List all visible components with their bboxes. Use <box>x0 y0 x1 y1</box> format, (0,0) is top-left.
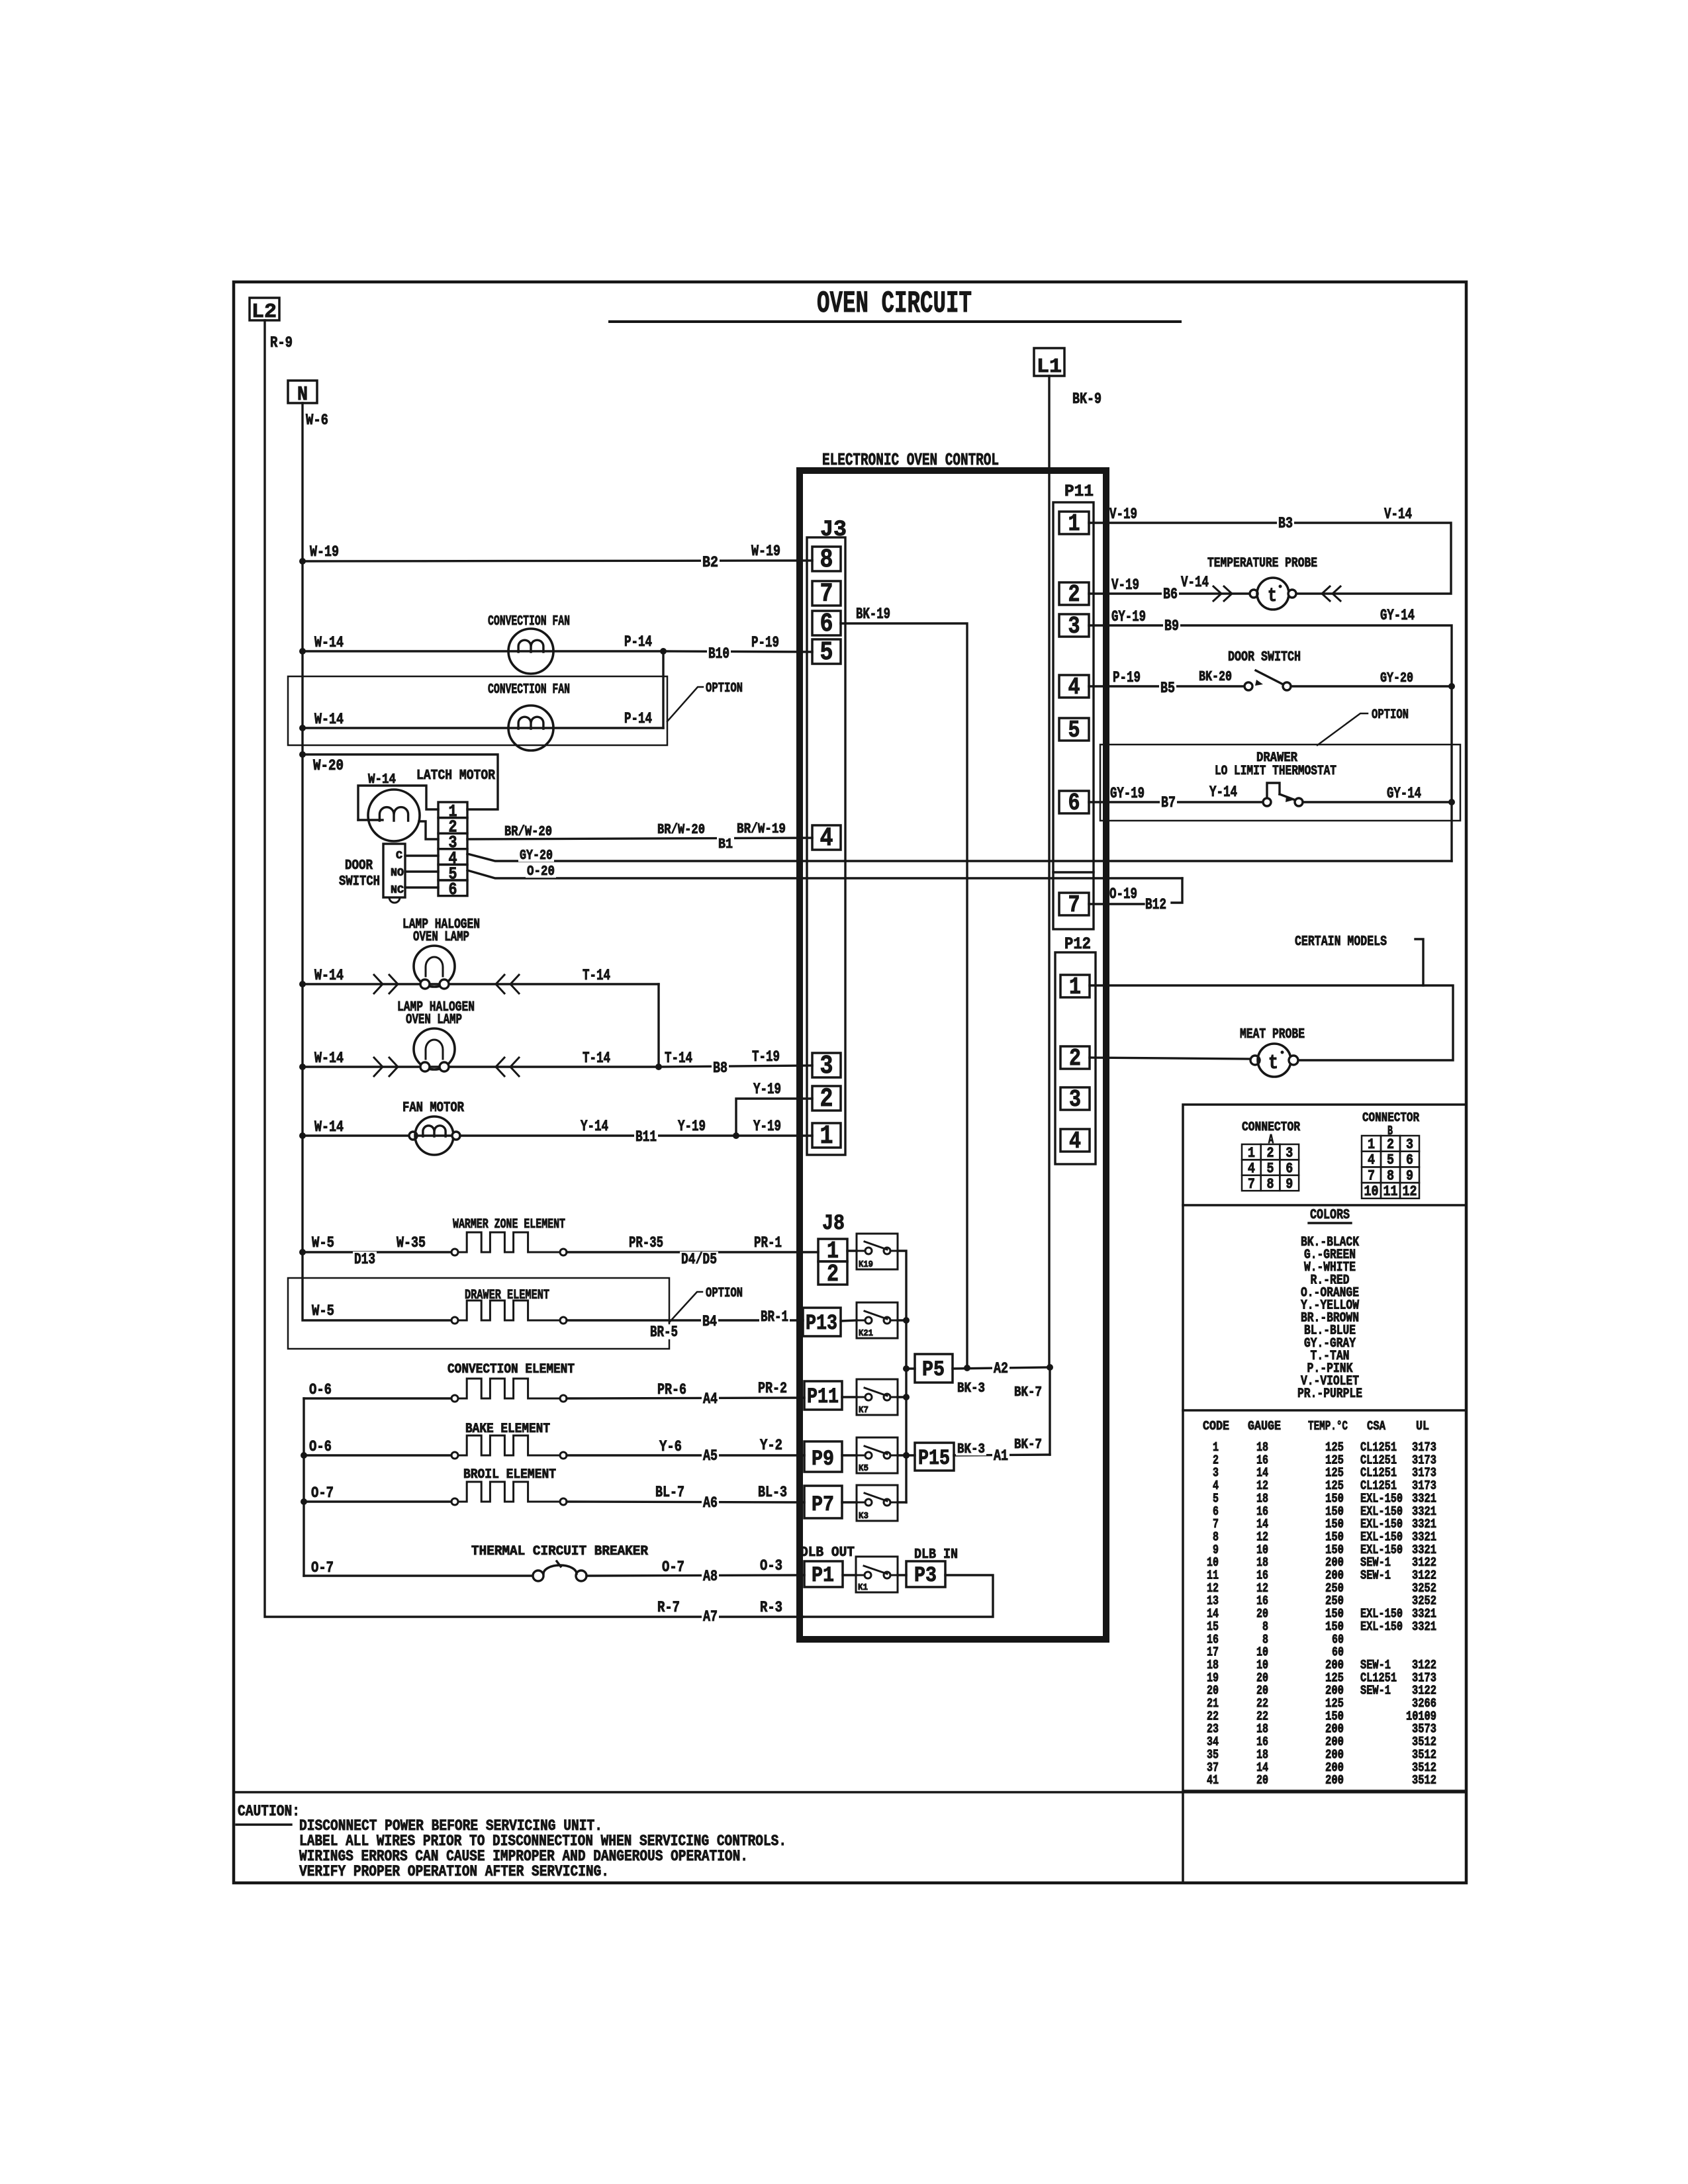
svg-text:W-19: W-19 <box>310 543 339 561</box>
svg-text:O-3: O-3 <box>760 1557 782 1574</box>
svg-text:2: 2 <box>820 1085 833 1115</box>
plug P15 <box>906 1454 915 1456</box>
svg-text:B11: B11 <box>635 1128 657 1146</box>
svg-text:GY-19: GY-19 <box>1111 608 1146 625</box>
wire O-6 to bake element <box>304 1454 451 1456</box>
svg-text:3: 3 <box>1069 1086 1081 1113</box>
node W-14 fan2 junction <box>299 725 306 731</box>
svg-text:O-20: O-20 <box>527 864 555 880</box>
svg-text:V-19: V-19 <box>1111 576 1139 594</box>
svg-text:P-19: P-19 <box>751 634 779 651</box>
svg-text:O-7: O-7 <box>311 1559 334 1576</box>
wire W-14 option fan <box>303 727 663 729</box>
svg-text:7: 7 <box>1248 1176 1255 1193</box>
svg-text:DOOR: DOOR <box>345 858 373 874</box>
connector J3 pin 2 <box>812 1086 841 1111</box>
connector P12 pin 1 <box>1060 975 1090 997</box>
svg-text:O-19: O-19 <box>1109 886 1137 903</box>
svg-text:W-6: W-6 <box>306 412 328 429</box>
svg-text:P15: P15 <box>918 1446 950 1471</box>
svg-text:C: C <box>396 850 402 862</box>
svg-text:T-14: T-14 <box>583 1050 610 1067</box>
wire T-14 lamp1 to junction <box>510 975 519 993</box>
svg-text:4: 4 <box>1069 1128 1081 1155</box>
svg-text:NC: NC <box>391 884 404 897</box>
svg-text:Y-19: Y-19 <box>678 1118 706 1135</box>
svg-text:O-7: O-7 <box>311 1484 334 1502</box>
wire W-14 to convection fan <box>303 650 663 652</box>
svg-text:4: 4 <box>1068 674 1080 701</box>
svg-text:7: 7 <box>820 580 833 610</box>
svg-text:BR-1: BR-1 <box>761 1308 788 1326</box>
svg-text:OVEN LAMP: OVEN LAMP <box>413 930 469 945</box>
wire PR-35 D4/D5 PR-1 to J8-1 <box>567 1251 818 1253</box>
svg-text:W-14: W-14 <box>314 1118 344 1136</box>
svg-text:W-5: W-5 <box>312 1302 334 1320</box>
node BK-19 P5 junction <box>964 1365 970 1371</box>
svg-text:BR/W-20: BR/W-20 <box>657 823 705 838</box>
svg-text:BK-9: BK-9 <box>1072 390 1102 408</box>
wire P3 to R-3 return <box>803 1575 993 1617</box>
connector J3 pin 6 <box>812 611 841 635</box>
svg-text:P7: P7 <box>812 1492 834 1517</box>
svg-text:BK-3: BK-3 <box>957 1381 985 1396</box>
svg-text:GY-14: GY-14 <box>1387 785 1421 802</box>
svg-text:A1: A1 <box>994 1447 1008 1465</box>
wire BR-5 B4 BR-1 to P13 <box>567 1319 803 1321</box>
wire O-7 to thermal breaker <box>304 1574 534 1576</box>
info table box <box>1183 1105 1466 1791</box>
svg-text:CERTAIN MODELS: CERTAIN MODELS <box>1295 934 1387 950</box>
svg-text:J8: J8 <box>822 1211 845 1236</box>
svg-text:SWITCH: SWITCH <box>339 874 380 889</box>
node O-6 junction <box>301 1452 307 1459</box>
svg-text:EXL-150: EXL-150 <box>1360 1619 1403 1634</box>
plug P7 <box>804 1486 842 1518</box>
svg-text:6: 6 <box>820 610 833 639</box>
connector P11 pin 7 <box>1059 893 1089 915</box>
wire GY-20 latch pin4 crossing <box>467 854 1452 861</box>
svg-text:1: 1 <box>1068 510 1080 537</box>
wire P-14 fan2 up to fan1 wire <box>662 651 664 728</box>
svg-text:B10: B10 <box>708 645 729 662</box>
svg-text:P1: P1 <box>812 1563 834 1588</box>
wire N rail <box>303 403 453 1320</box>
connector P11 pin 5 <box>1059 718 1089 741</box>
svg-text:V-19: V-19 <box>1109 506 1137 523</box>
option leader line <box>667 687 703 721</box>
wire P12-1 to meat probe right <box>1090 985 1453 1060</box>
svg-text:5: 5 <box>1068 717 1080 744</box>
svg-text:T-14: T-14 <box>665 1050 692 1067</box>
svg-text:GY-20: GY-20 <box>1380 671 1413 686</box>
connector J3 pin 4 <box>812 825 841 850</box>
svg-text:6: 6 <box>449 880 457 899</box>
svg-text:BROIL ELEMENT: BROIL ELEMENT <box>463 1467 556 1482</box>
svg-text:ELECTRONIC OVEN CONTROL: ELECTRONIC OVEN CONTROL <box>822 450 999 470</box>
svg-text:10: 10 <box>1364 1183 1379 1200</box>
wire Y-19 up to J3-2 <box>736 1099 812 1136</box>
svg-text:Y-14: Y-14 <box>1209 784 1237 801</box>
svg-text:BL-3: BL-3 <box>758 1484 787 1501</box>
svg-text:D4/D5: D4/D5 <box>681 1251 717 1268</box>
wire K3 to bus <box>898 1501 906 1503</box>
svg-text:W-5: W-5 <box>312 1234 334 1251</box>
svg-text:B8: B8 <box>713 1060 727 1077</box>
option box drawer element <box>288 1278 669 1349</box>
svg-text:GY-19: GY-19 <box>1110 785 1145 802</box>
connector J8 pin 1 <box>818 1239 847 1261</box>
svg-text:BR-5: BR-5 <box>650 1324 678 1341</box>
svg-text:B4: B4 <box>702 1313 717 1330</box>
svg-text:W-20: W-20 <box>313 757 344 774</box>
wire K21 to bus <box>898 1319 906 1321</box>
svg-text:P11: P11 <box>807 1385 839 1409</box>
svg-text:PR-6: PR-6 <box>657 1381 686 1398</box>
wire K19 to bus <box>898 1251 906 1502</box>
svg-text:SEW-1: SEW-1 <box>1360 1684 1391 1698</box>
svg-text:41: 41 <box>1207 1773 1219 1788</box>
plug P9 <box>804 1441 842 1472</box>
svg-text:OPTION: OPTION <box>706 1286 743 1301</box>
plug P11 <box>804 1381 842 1410</box>
node W-14 lamp2 junction <box>299 1064 306 1070</box>
wire P12-2 to meat probe left <box>1090 1058 1252 1059</box>
plug P5 <box>906 1367 915 1369</box>
svg-text:12: 12 <box>1403 1183 1417 1200</box>
svg-text:J3: J3 <box>820 518 847 543</box>
node L2 <box>250 298 279 320</box>
svg-text:2: 2 <box>1069 1045 1081 1072</box>
wire L1 BK-9 rail <box>1048 376 1050 1367</box>
connector J3 pin 3 <box>812 1053 841 1077</box>
svg-text:11: 11 <box>1383 1183 1398 1200</box>
latch connector block pins 1-6 <box>438 802 467 818</box>
svg-text:O-6: O-6 <box>309 1381 332 1398</box>
svg-text:CONVECTION ELEMENT: CONVECTION ELEMENT <box>447 1362 575 1377</box>
svg-text:BR/W-20: BR/W-20 <box>504 825 552 840</box>
svg-text:R-3: R-3 <box>760 1599 782 1616</box>
svg-text:BK-7: BK-7 <box>1014 1437 1042 1453</box>
svg-text:O-7: O-7 <box>662 1559 684 1576</box>
svg-text:GY-14: GY-14 <box>1380 607 1415 624</box>
svg-text:t: t <box>1268 1052 1278 1075</box>
wire O-7 A8 O-3 to P1 <box>586 1575 804 1576</box>
svg-text:DLB OUT: DLB OUT <box>800 1545 855 1561</box>
wire Y-14 B11 Y-19 to J3-1 <box>460 1134 812 1136</box>
wire W-14 latch loop to pin1 left <box>358 786 438 820</box>
svg-text:BK-3: BK-3 <box>957 1442 985 1457</box>
svg-text:BK-20: BK-20 <box>1199 670 1232 685</box>
node GY-20 junction <box>1448 683 1455 690</box>
svg-text:T-19: T-19 <box>752 1048 780 1066</box>
svg-text:A7: A7 <box>703 1608 718 1625</box>
svg-text:7: 7 <box>1368 1167 1375 1184</box>
wire C to latch pin4 <box>405 854 438 856</box>
connector P11 pin 6 <box>1059 791 1089 813</box>
wire W-14 to fan motor <box>303 1134 456 1136</box>
border frame <box>234 282 1466 1883</box>
wire B12 hook to O-20 <box>1172 878 1182 903</box>
wire A1 BK-3 BK-7 <box>954 1455 1050 1455</box>
svg-text:W-14: W-14 <box>314 711 344 728</box>
wire BL-7 A6 BL-3 to P7 <box>567 1502 804 1502</box>
svg-text:1: 1 <box>1069 974 1081 1001</box>
wire O rail <box>303 1398 305 1576</box>
relay contact K1 <box>843 1574 856 1576</box>
connector P11 pin 4 <box>1059 675 1089 698</box>
wire O-20 latch pin5 crossing <box>467 870 1182 878</box>
svg-text:P11: P11 <box>1064 482 1094 501</box>
svg-text:W-35: W-35 <box>397 1234 426 1251</box>
node N <box>288 381 317 403</box>
node bus K7 <box>903 1394 910 1400</box>
svg-text:GAUGE: GAUGE <box>1248 1419 1281 1433</box>
svg-text:B2: B2 <box>702 554 718 571</box>
svg-text:D13: D13 <box>354 1251 375 1268</box>
svg-text:20: 20 <box>1256 1773 1268 1788</box>
caution box <box>234 1791 1466 1794</box>
svg-text:7: 7 <box>1068 891 1080 919</box>
node bus P15 <box>903 1452 910 1459</box>
svg-text:P12: P12 <box>1064 934 1091 954</box>
svg-text:8: 8 <box>820 545 833 575</box>
wire L2 rail <box>265 320 803 1617</box>
svg-text:PR-35: PR-35 <box>629 1234 663 1251</box>
svg-text:R-7: R-7 <box>657 1599 680 1616</box>
svg-text:PR-2: PR-2 <box>758 1380 787 1397</box>
wire GY-20 door switch to rail <box>1291 685 1452 687</box>
svg-text:NO: NO <box>391 867 404 880</box>
wire P-19 B5 BK-20 from P11-4 <box>1089 685 1245 687</box>
node W-14 fan motor junction <box>299 1132 306 1139</box>
connector P11 pin 1 <box>1059 512 1089 534</box>
svg-text:TEMP.°C: TEMP.°C <box>1308 1419 1348 1433</box>
connector P11 pin 2 <box>1059 582 1089 605</box>
connector J3 pin 5 <box>812 639 841 664</box>
wire W-14 to oven lamp 1 <box>303 983 659 985</box>
svg-text:R-9: R-9 <box>270 334 293 351</box>
wire K7 to bus <box>898 1396 906 1398</box>
svg-text:FAN MOTOR: FAN MOTOR <box>402 1101 464 1116</box>
connector P12 pin 3 <box>1060 1087 1090 1110</box>
svg-text:A4: A4 <box>703 1390 718 1408</box>
option box drawer lo limit thermostat <box>1100 745 1460 821</box>
node Y-19 junction <box>733 1132 739 1139</box>
svg-text:T-14: T-14 <box>583 967 610 984</box>
svg-text:W-14: W-14 <box>314 1050 344 1067</box>
door switch S1 C/NO/NC box <box>383 844 405 897</box>
svg-text:9: 9 <box>1406 1167 1413 1184</box>
svg-text:PR-1: PR-1 <box>754 1234 782 1251</box>
wire BK-19 J3-6 to P5 <box>841 623 967 1368</box>
svg-text:K3: K3 <box>859 1511 868 1522</box>
node P-14 junction <box>660 648 667 655</box>
svg-text:TEMPERATURE PROBE: TEMPERATURE PROBE <box>1207 556 1317 571</box>
svg-text:P-14: P-14 <box>624 710 652 727</box>
wire lamp1 down to lamp2 wire <box>657 984 659 1067</box>
connector J3 pin 7 <box>812 581 841 606</box>
wire W-19 B2 to J3-8 <box>303 561 812 561</box>
node W-5 junction <box>299 1249 306 1255</box>
svg-text:200: 200 <box>1325 1773 1344 1788</box>
node T-14 junction <box>655 1064 662 1070</box>
wire V-19 B6 V-14 from P11-2 <box>1089 592 1252 594</box>
svg-text:MEAT PROBE: MEAT PROBE <box>1240 1027 1305 1042</box>
node bus P5 <box>903 1365 910 1372</box>
node GY-14 junction <box>1448 799 1455 805</box>
svg-text:V-14: V-14 <box>1384 506 1412 523</box>
svg-text:CSA: CSA <box>1367 1419 1385 1433</box>
svg-text:Y-6: Y-6 <box>659 1438 682 1455</box>
svg-text:K5: K5 <box>859 1463 868 1474</box>
svg-text:8: 8 <box>1387 1167 1394 1184</box>
svg-text:3: 3 <box>820 1052 833 1081</box>
svg-text:B1: B1 <box>718 837 733 852</box>
svg-text:CAUTION:: CAUTION: <box>238 1803 300 1820</box>
svg-text:8: 8 <box>1267 1176 1274 1193</box>
svg-text:W-14: W-14 <box>314 967 344 984</box>
svg-text:LATCH MOTOR: LATCH MOTOR <box>416 768 495 784</box>
svg-text:B12: B12 <box>1145 896 1166 913</box>
relay contact K3 <box>842 1501 857 1503</box>
wire O-7 to broil element <box>304 1500 451 1502</box>
svg-text:Y-19: Y-19 <box>753 1081 781 1098</box>
svg-text:2: 2 <box>1068 581 1080 608</box>
svg-text:COLORS: COLORS <box>1310 1208 1350 1223</box>
svg-text:THERMAL CIRCUIT BREAKER: THERMAL CIRCUIT BREAKER <box>471 1544 648 1559</box>
svg-text:3: 3 <box>1406 1136 1413 1153</box>
svg-text:W-14: W-14 <box>314 634 344 651</box>
svg-text:W-19: W-19 <box>751 543 780 560</box>
svg-text:WARMER ZONE ELEMENT: WARMER ZONE ELEMENT <box>453 1217 565 1232</box>
wire PR-6 A4 PR-2 to P11 <box>567 1398 804 1398</box>
wire GY-14 thermostat to rail <box>1303 801 1452 803</box>
node bus K21 <box>903 1317 910 1324</box>
svg-text:4: 4 <box>1368 1152 1375 1169</box>
node W-20 junction <box>299 751 306 758</box>
relay contact K21 <box>841 1320 857 1321</box>
node O-7 junction <box>301 1498 307 1505</box>
svg-text:P-14: P-14 <box>624 633 652 651</box>
svg-text:2: 2 <box>1387 1136 1394 1153</box>
svg-text:K7: K7 <box>859 1405 868 1416</box>
svg-text:GY-20: GY-20 <box>520 848 553 864</box>
svg-text:5: 5 <box>1387 1152 1394 1169</box>
option box convection fan <box>288 676 667 745</box>
node W-14 fan junction <box>299 648 306 655</box>
connector P11 pin 3 <box>1059 614 1089 637</box>
svg-text:B9: B9 <box>1164 617 1179 635</box>
wire T-14 B8 T-19 to J3-3 <box>659 1066 812 1067</box>
wire L1 down to A1 <box>1049 1367 1051 1455</box>
svg-text:3512: 3512 <box>1412 1773 1436 1788</box>
svg-text:CODE: CODE <box>1203 1419 1229 1433</box>
svg-text:CONVECTION FAN: CONVECTION FAN <box>488 682 570 698</box>
connector J8 pin 2 <box>818 1261 847 1285</box>
node A2 L1 junction <box>1047 1364 1053 1371</box>
option leader line drawer <box>669 1292 702 1322</box>
svg-text:P9: P9 <box>812 1447 834 1471</box>
svg-text:P3: P3 <box>914 1563 937 1588</box>
svg-text:OPTION: OPTION <box>1372 707 1409 723</box>
wire W-20 to latch pin1 right <box>303 754 498 809</box>
svg-text:6: 6 <box>1068 790 1080 817</box>
svg-text:B3: B3 <box>1278 515 1293 532</box>
svg-text:VERIFY PROPER OPERATION AFTER: VERIFY PROPER OPERATION AFTER SERVICING. <box>299 1863 609 1880</box>
svg-text:V-14: V-14 <box>1181 574 1209 591</box>
svg-text:CONVECTION FAN: CONVECTION FAN <box>488 614 570 629</box>
svg-text:1: 1 <box>1368 1136 1375 1153</box>
svg-text:K1: K1 <box>858 1582 868 1593</box>
plug P13 <box>803 1308 841 1336</box>
svg-text:CONNECTOR: CONNECTOR <box>1362 1111 1419 1125</box>
wire NO to latch pin5 <box>405 870 438 872</box>
wire O-19 B12 from P11-7 <box>1089 903 1144 905</box>
svg-text:OPTION: OPTION <box>706 681 743 696</box>
svg-text:5: 5 <box>820 638 833 668</box>
wire V-19 B3 V-14 from P11-1 <box>1089 523 1451 594</box>
wire BR/W-20 B1 to J3-4 <box>467 838 812 839</box>
svg-text:LO LIMIT THERMOSTAT: LO LIMIT THERMOSTAT <box>1215 764 1336 779</box>
wire P-14 B10 P-19 to J3-5 <box>663 651 812 652</box>
svg-text:A8: A8 <box>703 1568 718 1585</box>
svg-text:2: 2 <box>827 1261 839 1288</box>
svg-text:BR/W-19: BR/W-19 <box>737 822 786 837</box>
svg-text:PR.-PURPLE: PR.-PURPLE <box>1297 1387 1362 1402</box>
wire GY-19 B9 GY-14 from P11-3 <box>1089 625 1452 861</box>
wire W-5 D13 W-35 to warmer element <box>303 1251 451 1253</box>
svg-text:4: 4 <box>820 824 833 854</box>
svg-text:t: t <box>1268 585 1277 608</box>
svg-text:P5: P5 <box>922 1357 945 1382</box>
node bus K5 <box>903 1452 910 1459</box>
svg-text:O-6: O-6 <box>309 1438 332 1455</box>
svg-text:9: 9 <box>1286 1176 1293 1193</box>
svg-text:A5: A5 <box>703 1447 718 1465</box>
relay contact K19 <box>847 1250 857 1251</box>
wire GY-19 B7 Y-14 from P11-6 <box>1089 801 1264 803</box>
svg-text:Y-2: Y-2 <box>760 1437 782 1454</box>
node W-14 lamp1 junction <box>299 981 306 987</box>
connector P12 pin 4 <box>1060 1129 1090 1152</box>
svg-text:SEW-1: SEW-1 <box>1360 1569 1391 1583</box>
wire latch motor to pin3 <box>419 821 438 839</box>
connector P12 pin 2 <box>1060 1046 1090 1069</box>
relay contact K7 <box>842 1396 857 1398</box>
svg-text:K19: K19 <box>859 1259 873 1270</box>
svg-text:3321: 3321 <box>1412 1619 1436 1634</box>
wire W-14 to oven lamp 2 <box>303 1066 659 1068</box>
wire K5 to bus <box>898 1454 906 1456</box>
svg-text:Y-14: Y-14 <box>581 1118 608 1135</box>
node W-19 junction <box>299 558 306 565</box>
svg-text:UL: UL <box>1416 1419 1429 1433</box>
svg-text:A2: A2 <box>994 1360 1008 1377</box>
svg-text:A6: A6 <box>703 1494 718 1512</box>
svg-text:BK-19: BK-19 <box>856 606 890 623</box>
svg-text:P13: P13 <box>806 1311 837 1336</box>
svg-text:P-19: P-19 <box>1113 669 1141 686</box>
connector J3 pin 1 <box>812 1123 841 1148</box>
option leader line thermostat <box>1317 713 1368 745</box>
svg-text:B5: B5 <box>1160 680 1175 697</box>
wire NC to latch pin6 <box>405 886 438 888</box>
svg-text:OVEN CIRCUIT: OVEN CIRCUIT <box>817 287 972 321</box>
svg-text:B6: B6 <box>1163 586 1178 603</box>
svg-text:OVEN LAMP: OVEN LAMP <box>406 1013 462 1028</box>
svg-text:BL-7: BL-7 <box>655 1484 684 1501</box>
